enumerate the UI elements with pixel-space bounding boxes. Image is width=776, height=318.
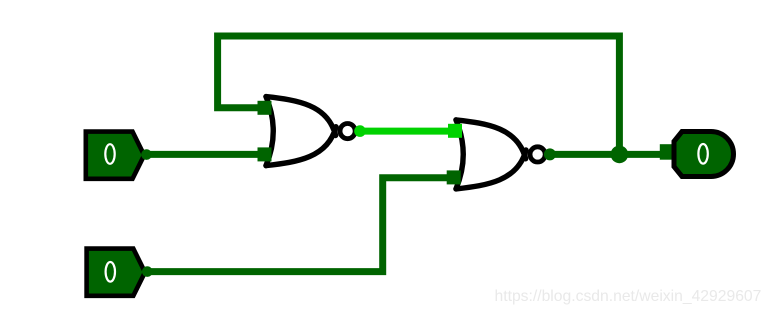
wire feedback loop xyxy=(218,36,620,154)
input pin IN2 xyxy=(87,249,145,296)
wire pin IN2 to elbow xyxy=(147,178,456,272)
label OUT value 0 xyxy=(698,144,707,164)
watermark xyxy=(495,289,762,305)
NOR2 input A port square (logic 1) xyxy=(448,124,462,138)
input pin IN1 xyxy=(86,132,144,179)
op gate NOR2 U2 bubble xyxy=(530,147,545,162)
NOR1 input A port square xyxy=(258,101,272,115)
op gate NOR1 U1 bubble xyxy=(340,124,355,139)
node pin IN2 dot xyxy=(142,266,153,277)
output pin port stub xyxy=(660,144,674,160)
NOR1 input B port square xyxy=(258,147,272,161)
wire pin IN1 to NOR1 input B xyxy=(146,151,266,158)
op gate NOR2 U2 body xyxy=(456,120,526,189)
label IN2 value 0 xyxy=(106,262,115,282)
output pin OUT xyxy=(674,132,733,177)
node junction on output wire xyxy=(611,146,629,164)
node NOR2 output dot xyxy=(544,148,556,160)
op gate NOR1 U1 body xyxy=(266,97,336,166)
wire NOR1 output to NOR2 input A (logic 1) xyxy=(360,128,456,135)
NOR2 input B port square xyxy=(447,170,461,184)
label IN1 value 0 xyxy=(105,144,114,164)
wire NOR2 output to output pin xyxy=(550,151,665,158)
node pin IN1 dot xyxy=(141,149,152,160)
node NOR1 output dot (logic 1) xyxy=(354,125,366,137)
